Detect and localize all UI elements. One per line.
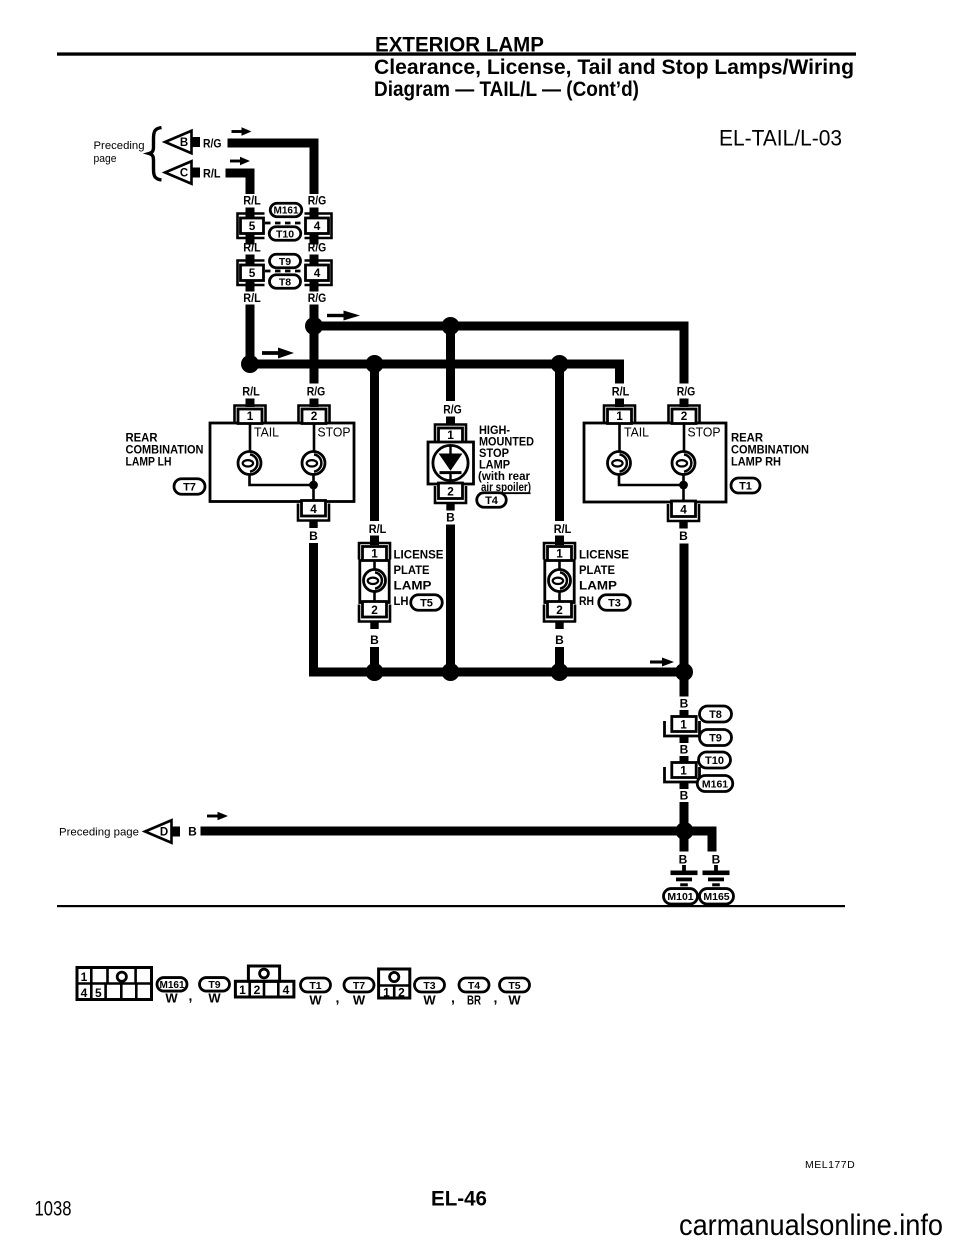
- connector triangle D (from preceding page): [145, 820, 180, 843]
- wire label R/L: [243, 196, 261, 208]
- wire B: [555, 647, 564, 677]
- wire to M101 ground: [680, 836, 689, 852]
- svg-text:B: B: [680, 789, 689, 803]
- high-mounted stop lamp box: [428, 442, 474, 484]
- svg-text:B: B: [712, 853, 721, 867]
- svg-text:W: W: [353, 993, 366, 1008]
- wire R/G drop to high-mounted lamp: [446, 331, 455, 402]
- wire B: [370, 647, 379, 677]
- svg-text:R/L: R/L: [243, 293, 261, 305]
- wire label R/L: [203, 169, 221, 181]
- svg-text:B: B: [370, 633, 379, 647]
- svg-text:MEL177D: MEL177D: [805, 1159, 855, 1171]
- svg-text:W: W: [208, 991, 221, 1006]
- svg-text:R/G: R/G: [677, 387, 696, 399]
- wire R/G vertical to bus: [310, 305, 319, 331]
- junction node: [675, 663, 693, 681]
- component name LICENSE PLATE LAMP LH: [394, 550, 444, 609]
- bulb (license LH): [364, 570, 386, 592]
- svg-text:2: 2: [371, 603, 378, 617]
- inline connector pin 4 (T9-T8): [305, 261, 332, 286]
- svg-text:REAR: REAR: [126, 433, 159, 445]
- component name REAR COMBINATION LAMP LH: [126, 433, 204, 469]
- bulb STOP (LH): [302, 452, 325, 475]
- svg-text:T5: T5: [508, 980, 520, 992]
- svg-text:B: B: [180, 137, 188, 149]
- bottom separator rule: [57, 905, 845, 907]
- svg-text:Preceding: Preceding: [94, 140, 145, 152]
- pin color W: [208, 991, 221, 1006]
- svg-text:5: 5: [95, 986, 102, 1000]
- connector id T9: [700, 730, 732, 746]
- svg-text:2: 2: [254, 983, 261, 997]
- wire label R/L (license LH): [369, 524, 387, 536]
- comma: [189, 988, 193, 1004]
- pin 2 (high-mounted stop lamp): [435, 483, 466, 511]
- license plate lamp LH body: [360, 561, 389, 603]
- license plate lamp RH body: [545, 561, 574, 603]
- svg-text:PLATE: PLATE: [579, 565, 615, 577]
- wire label B: [309, 529, 318, 543]
- internal wire: [558, 561, 561, 603]
- connector id T8: [270, 275, 301, 289]
- svg-text:B: B: [309, 529, 318, 543]
- wire stub: [680, 736, 689, 743]
- wire stub: [246, 281, 255, 292]
- svg-text:2: 2: [681, 409, 688, 423]
- ground bus wire B (bottom): [201, 827, 717, 836]
- svg-text:M101: M101: [667, 891, 693, 903]
- pin color W: [353, 993, 366, 1008]
- connector id T7: [174, 479, 205, 495]
- bus wire R/L (lower): [246, 360, 625, 369]
- wire R/G horizontal from B: [228, 139, 319, 148]
- pin 1 (high-mounted stop lamp): [435, 425, 466, 443]
- svg-text:,: ,: [494, 990, 498, 1006]
- junction node: [366, 663, 384, 681]
- svg-text:B: B: [188, 825, 197, 839]
- svg-text:1: 1: [680, 717, 687, 731]
- svg-text:B: B: [679, 529, 688, 543]
- wire stub: [680, 782, 689, 789]
- svg-text:1038: 1038: [35, 1198, 72, 1221]
- svg-text:,: ,: [189, 988, 193, 1004]
- internal wire: [250, 423, 315, 500]
- subtitle line 2: [374, 78, 639, 101]
- svg-text:STOP: STOP: [479, 448, 509, 460]
- svg-text:R/L: R/L: [203, 169, 221, 181]
- svg-text:R/G: R/G: [308, 196, 327, 208]
- svg-text:STOP: STOP: [688, 426, 721, 440]
- dashed connector mating line: [265, 222, 304, 225]
- inline connector pin 5 (M161-T10): [238, 214, 265, 239]
- svg-text:LICENSE: LICENSE: [394, 550, 444, 562]
- svg-text:T9: T9: [208, 979, 220, 991]
- svg-text:T4: T4: [468, 980, 480, 992]
- connector id T5 (face): [500, 978, 530, 992]
- junction node: [309, 481, 318, 490]
- svg-text:R/L: R/L: [369, 524, 387, 536]
- dashed connector mating line: [265, 270, 304, 273]
- svg-text:B: B: [680, 697, 689, 711]
- svg-text:Diagram — TAIL/L — (Cont’d): Diagram — TAIL/L — (Cont’d): [374, 78, 639, 101]
- connector id T9: [270, 254, 301, 268]
- wire B from high-mounted lamp: [446, 525, 455, 677]
- internal wire: [619, 423, 684, 500]
- wire label B: [188, 825, 197, 839]
- svg-text:,: ,: [336, 990, 340, 1006]
- svg-text:R/G: R/G: [203, 139, 222, 151]
- pin color BR: [467, 993, 481, 1008]
- svg-text:C: C: [180, 168, 188, 180]
- arrow: [232, 127, 252, 136]
- rear combination lamp LH box: [210, 423, 354, 502]
- wire R/G vertical crossing: [310, 331, 319, 384]
- svg-text:T1: T1: [739, 480, 752, 492]
- wire label R/L: [612, 387, 630, 399]
- connector id T8: [700, 706, 732, 722]
- connector id T10: [699, 752, 731, 768]
- internal wire: [373, 561, 376, 603]
- drawing code MEL177D: [805, 1159, 855, 1171]
- wire label R/G: [308, 196, 327, 208]
- wire stub: [310, 281, 319, 292]
- svg-text:LH: LH: [394, 596, 409, 608]
- page number 1038: [35, 1198, 72, 1221]
- svg-text:REAR: REAR: [731, 433, 764, 445]
- svg-text:T3: T3: [608, 597, 621, 609]
- svg-text:B: B: [446, 511, 455, 525]
- wire label B: [680, 743, 689, 757]
- wire label B: [370, 633, 379, 647]
- pin 2 (license lamp RH): [544, 602, 575, 630]
- connector id T9 (face): [200, 978, 230, 992]
- connector id M161: [697, 776, 733, 792]
- pin 4 (RH lamp): [668, 501, 699, 529]
- wire stub: [680, 710, 689, 718]
- svg-text:1: 1: [247, 409, 254, 423]
- wire stub: [310, 208, 319, 219]
- pin color W: [165, 991, 178, 1006]
- junction node: [551, 355, 569, 373]
- svg-text:1: 1: [447, 428, 454, 442]
- wire stub: [246, 234, 255, 245]
- pin 1 (license lamp LH): [359, 543, 390, 561]
- pin 1 (LH lamp): [235, 406, 266, 424]
- wire corner to M165 ground: [708, 836, 717, 852]
- brace: [149, 128, 162, 181]
- page id EL-46: [431, 1188, 487, 1211]
- bulb TAIL (LH): [238, 452, 261, 475]
- svg-text:1: 1: [239, 983, 246, 997]
- comma: [336, 990, 340, 1006]
- svg-text:T5: T5: [420, 597, 433, 609]
- junction node: [241, 355, 259, 373]
- connector id T4: [477, 493, 507, 508]
- bus wire R/G (upper): [310, 322, 689, 331]
- svg-text:T10: T10: [705, 755, 724, 767]
- svg-text:1: 1: [556, 547, 563, 561]
- component name REAR COMBINATION LAMP RH: [731, 433, 809, 469]
- LED symbol: [433, 445, 468, 480]
- svg-text:RH: RH: [579, 596, 594, 608]
- svg-text:M161: M161: [273, 206, 298, 217]
- svg-text:4: 4: [314, 266, 321, 280]
- svg-text:B: B: [555, 633, 564, 647]
- wire stub: [370, 536, 379, 546]
- svg-text:LAMP: LAMP: [479, 460, 510, 472]
- pin color W: [508, 993, 521, 1008]
- connector id M161 (face): [157, 978, 187, 992]
- svg-text:1: 1: [616, 409, 623, 423]
- svg-text:T8: T8: [709, 709, 722, 721]
- connector face T1/T7 grid: [235, 966, 294, 997]
- pin 2 (license lamp LH): [359, 602, 390, 630]
- inline connector pin 1 (T10-M161): [665, 763, 700, 783]
- svg-text:COMBINATION: COMBINATION: [126, 445, 204, 457]
- bulb TAIL (RH): [608, 452, 631, 475]
- component name LICENSE PLATE LAMP RH: [579, 550, 629, 609]
- svg-text:R/G: R/G: [443, 405, 462, 417]
- svg-text:LAMP LH: LAMP LH: [126, 457, 172, 469]
- pin 1 (RH lamp): [604, 406, 635, 424]
- inline connector pin 1 (T8-T9): [665, 717, 700, 737]
- svg-text:Clearance, License, Tail and S: Clearance, License, Tail and Stop Lamps/…: [374, 56, 854, 79]
- wire label R/L (license RH): [554, 524, 572, 536]
- label Preceding page (bottom): [59, 827, 139, 839]
- wire stub: [246, 208, 255, 219]
- wire label B: [555, 633, 564, 647]
- svg-text:T9: T9: [709, 732, 722, 744]
- label TAIL: [254, 426, 279, 440]
- wire label B: [679, 853, 688, 867]
- svg-text:1: 1: [81, 970, 88, 984]
- wire label R/G: [308, 243, 327, 255]
- svg-text:HIGH-: HIGH-: [479, 425, 510, 437]
- connector id T4 (face): [459, 978, 489, 992]
- wire stub to high-mounted pin: [446, 417, 455, 426]
- svg-text:1: 1: [680, 763, 687, 777]
- svg-text:4: 4: [283, 983, 290, 997]
- wire R/L drop to RH lamp: [615, 360, 624, 384]
- pin 4 (LH lamp): [298, 501, 329, 529]
- svg-text:T3: T3: [423, 980, 435, 992]
- svg-text:M161: M161: [159, 980, 184, 991]
- svg-text:2: 2: [447, 484, 454, 498]
- ground symbol M165: [703, 865, 730, 886]
- connector triangle B (from preceding page): [165, 131, 200, 154]
- svg-text:W: W: [309, 993, 322, 1008]
- label STOP: [318, 426, 351, 440]
- wire B below bus: [680, 677, 689, 697]
- pin 2 (LH lamp): [299, 406, 330, 424]
- svg-text:COMBINATION: COMBINATION: [731, 445, 809, 457]
- svg-text:4: 4: [310, 502, 317, 516]
- wire stub: [310, 234, 319, 245]
- svg-text:page: page: [94, 153, 117, 165]
- header title EXTERIOR LAMP: [375, 34, 544, 57]
- junction node: [679, 481, 688, 490]
- svg-text:M161: M161: [702, 778, 728, 790]
- header rule: [57, 52, 856, 55]
- wire label R/L: [243, 243, 261, 255]
- wire label B: [446, 511, 455, 525]
- svg-text:2: 2: [311, 409, 318, 423]
- ground symbol M101: [671, 865, 698, 886]
- junction node: [305, 317, 323, 335]
- inline connector pin 5 (T9-T8): [238, 261, 265, 286]
- wire label B: [680, 789, 689, 803]
- svg-text:B: B: [680, 743, 689, 757]
- arrow: [650, 658, 674, 667]
- svg-text:STOP: STOP: [318, 426, 351, 440]
- svg-text:1: 1: [383, 986, 390, 1000]
- wire label R/G: [677, 387, 696, 399]
- arrow: [230, 157, 250, 166]
- wire R/L drop to license RH: [555, 369, 564, 522]
- connector triangle C (from preceding page): [165, 161, 200, 184]
- svg-text:T7: T7: [353, 980, 365, 992]
- wire B to ground bus: [680, 802, 689, 831]
- svg-text:R/L: R/L: [612, 387, 630, 399]
- svg-text:R/G: R/G: [308, 243, 327, 255]
- label STOP: [688, 426, 721, 440]
- svg-text:R/L: R/L: [242, 387, 260, 399]
- junction node: [551, 663, 569, 681]
- pin color W: [423, 993, 436, 1008]
- wire stub: [246, 255, 255, 266]
- svg-text:R/L: R/L: [554, 524, 572, 536]
- connector id T1 (face): [301, 978, 331, 992]
- bulb STOP (RH): [672, 452, 695, 475]
- svg-text:1: 1: [371, 547, 378, 561]
- svg-text:4: 4: [680, 502, 687, 516]
- svg-text:R/L: R/L: [243, 243, 261, 255]
- wire B from LH pin 4: [309, 543, 318, 677]
- svg-text:T10: T10: [276, 228, 294, 240]
- label TAIL: [624, 426, 649, 440]
- pin 2 (RH lamp): [669, 406, 700, 424]
- connector id T10: [269, 227, 301, 241]
- wire label B: [680, 697, 689, 711]
- connector id M161: [270, 203, 302, 217]
- wire R/L horizontal from C: [226, 169, 255, 178]
- connector face T3/T4/T5 grid: [379, 969, 410, 1000]
- wire label R/G: [308, 293, 327, 305]
- svg-text:M165: M165: [703, 891, 729, 903]
- wire label R/L: [243, 293, 261, 305]
- pin 1 (license lamp RH): [544, 543, 575, 561]
- svg-text:B: B: [679, 853, 688, 867]
- svg-text:LAMP: LAMP: [394, 581, 432, 593]
- rear combination lamp RH box: [584, 423, 726, 502]
- connector id M101: [664, 889, 698, 905]
- svg-text:EL-TAIL/L-03: EL-TAIL/L-03: [719, 126, 842, 151]
- svg-text:TAIL: TAIL: [624, 426, 649, 440]
- junction node: [676, 822, 694, 840]
- wire label R/G: [307, 387, 326, 399]
- connector id T5: [411, 595, 443, 611]
- svg-text:5: 5: [249, 266, 256, 280]
- svg-text:4: 4: [81, 986, 88, 1000]
- svg-text:W: W: [508, 993, 521, 1008]
- ground bus wire B: [310, 668, 689, 677]
- svg-text:W: W: [423, 993, 436, 1008]
- wire R/L vertical: [246, 169, 255, 195]
- connector id T1: [731, 478, 760, 493]
- svg-text:TAIL: TAIL: [254, 426, 279, 440]
- wire R/G vertical: [310, 139, 319, 195]
- svg-text:5: 5: [249, 219, 256, 233]
- svg-text:R/G: R/G: [308, 293, 327, 305]
- subtitle line 1: [374, 56, 854, 79]
- wire label B: [712, 853, 721, 867]
- svg-text:Preceding page: Preceding page: [59, 827, 139, 839]
- comma: [451, 990, 455, 1006]
- connector face M161/T9 grid: [77, 968, 152, 1001]
- svg-text:MOUNTED: MOUNTED: [479, 437, 534, 449]
- connector id T3: [599, 595, 631, 611]
- wire R/G drop to RH lamp: [680, 322, 689, 384]
- svg-text:T9: T9: [279, 256, 291, 268]
- junction node: [366, 355, 384, 373]
- label Preceding page (top): [94, 140, 145, 165]
- wire label R/G: [203, 139, 222, 151]
- svg-text:R/G: R/G: [307, 387, 326, 399]
- arrow: [207, 812, 228, 821]
- svg-text:T7: T7: [183, 481, 196, 493]
- comma: [494, 990, 498, 1006]
- junction node: [442, 663, 460, 681]
- wire label R/L: [242, 387, 260, 399]
- wire stub: [310, 255, 319, 266]
- arrow: [262, 348, 294, 359]
- component name HIGH-MOUNTED STOP LAMP: [478, 425, 534, 494]
- svg-text:T8: T8: [279, 276, 291, 288]
- bulb (license RH): [549, 570, 571, 592]
- svg-text:PLATE: PLATE: [394, 565, 430, 577]
- svg-text:EL-46: EL-46: [431, 1188, 487, 1211]
- svg-text:R/L: R/L: [243, 196, 261, 208]
- svg-text:LAMP RH: LAMP RH: [731, 457, 781, 469]
- svg-text:4: 4: [314, 219, 321, 233]
- svg-text:carmanualsonline.info: carmanualsonline.info: [679, 1209, 943, 1242]
- svg-text:LICENSE: LICENSE: [579, 550, 629, 562]
- wire stub: [555, 536, 564, 546]
- svg-text:D: D: [160, 827, 168, 839]
- svg-text:W: W: [165, 991, 178, 1006]
- wire stubs to pins: [246, 399, 689, 408]
- wire R/L vertical to bus: [246, 305, 255, 369]
- pin color W: [309, 993, 322, 1008]
- inline connector pin 4 (M161-T10): [305, 214, 332, 239]
- arrow: [327, 311, 360, 321]
- svg-text:T1: T1: [309, 980, 321, 992]
- wire stub: [680, 756, 689, 764]
- svg-text:2: 2: [556, 603, 563, 617]
- svg-text:T4: T4: [485, 495, 499, 507]
- junction node: [442, 317, 460, 335]
- sheet id EL-TAIL/L-03: [719, 126, 842, 151]
- svg-text:,: ,: [451, 990, 455, 1006]
- connector id M165: [700, 889, 734, 905]
- svg-text:LAMP: LAMP: [579, 581, 617, 593]
- watermark carmanualsonline.info: [679, 1209, 943, 1242]
- wire R/L drop to license LH: [370, 369, 379, 522]
- svg-text:BR: BR: [467, 993, 481, 1008]
- svg-text:2: 2: [398, 986, 405, 1000]
- connector id T7 (face): [344, 978, 374, 992]
